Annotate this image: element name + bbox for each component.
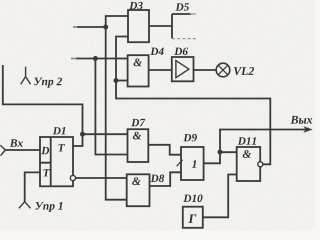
wire: D10 output to D11 lower input	[203, 175, 237, 218]
amplifier triangle inside D6	[176, 61, 189, 78]
logic block D5 (partial, faded)	[172, 14, 191, 39]
wire: D1 inverted output to D8 upper input	[75, 177, 126, 179]
label Vyh	[290, 116, 312, 124]
label VL2	[234, 67, 254, 75]
wire: feedback net from D11 output to D3 lower input	[116, 37, 270, 165]
label D5	[176, 3, 189, 10]
node junction J4	[80, 132, 85, 137]
wire: D7 output to D9 upper input	[148, 145, 181, 155]
symbol G in D10	[188, 214, 196, 223]
inversion circle on D1 output	[70, 175, 75, 180]
label D10	[183, 195, 202, 203]
label Vx	[10, 139, 23, 147]
label D3	[129, 2, 142, 10]
logic block D4 (AND)	[128, 55, 149, 86]
wire: Vx input to D1	[5, 149, 40, 151]
logic block D9 (OR)	[181, 147, 204, 180]
pin label T in D1 left	[43, 169, 49, 176]
generator block D10	[183, 207, 203, 228]
node junction J2 on V1	[93, 56, 98, 61]
symbol & in D11	[243, 150, 252, 158]
label D8	[151, 175, 165, 183]
node junction J3	[114, 78, 119, 83]
label D4	[150, 48, 163, 55]
wire: node to D7 upper input	[83, 133, 128, 135]
label D9	[183, 134, 197, 142]
lamp VL2	[216, 63, 230, 77]
wire: D3 output to D5	[149, 25, 172, 27]
stray mark on D9 left edge	[177, 160, 183, 166]
wire: branch to D4 lower input	[116, 80, 128, 82]
wire: Upr2 control line down to D1 output node	[3, 65, 83, 134]
input fork symbol Vx	[0, 145, 5, 156]
node junction J1 on V2	[103, 25, 108, 30]
wire: stub into D4 upper input	[77, 58, 129, 60]
label D7	[131, 119, 145, 126]
wire: net V2 (D3 upper input down to D8 lower input)	[106, 16, 128, 200]
symbol & in D4	[134, 59, 143, 67]
symbol & in D7	[133, 132, 142, 140]
flip-flop D1	[40, 137, 73, 186]
label D1	[53, 127, 66, 134]
wire: D4 output to D6	[149, 69, 172, 71]
logic block D7 (AND)	[128, 129, 149, 162]
label Upr2	[34, 78, 62, 88]
label D11	[238, 137, 256, 144]
wire: D8 output to D9 lower input	[150, 172, 182, 186]
pin label T in D1 main	[58, 144, 64, 151]
wire: D1 direct output up to node	[73, 134, 83, 146]
wire: node to D11 upper input	[220, 151, 237, 153]
wire: net V1 down to D7 lower input	[95, 59, 127, 155]
logic block D8 (AND)	[127, 174, 150, 206]
symbol & in D8	[132, 177, 141, 185]
symbol 1 in D9	[192, 160, 196, 168]
wire: D6 output to lamp VL2	[194, 69, 217, 71]
arrowhead Vyh	[303, 126, 312, 133]
pin label D in D1	[41, 147, 49, 154]
node junction J5	[218, 150, 223, 155]
label D6	[174, 48, 188, 56]
wire: D9 output up to Vyh line	[204, 130, 306, 164]
logic block D3	[128, 10, 149, 42]
wire: left stub to node at top (faded end)	[73, 26, 79, 28]
control fork symbol Upr1	[19, 202, 31, 209]
amplifier block D6	[172, 57, 194, 81]
inversion circle on D11 output	[258, 162, 263, 167]
wire: left stub 2 (faded end)	[71, 58, 78, 60]
wire: Upr1 to D1 T input	[25, 172, 40, 201]
control fork symbol Upr2	[21, 67, 31, 85]
logic block D11 (AND)	[237, 147, 261, 181]
label Upr1	[36, 202, 63, 212]
wire: left stub into vertical net V2	[78, 26, 106, 28]
